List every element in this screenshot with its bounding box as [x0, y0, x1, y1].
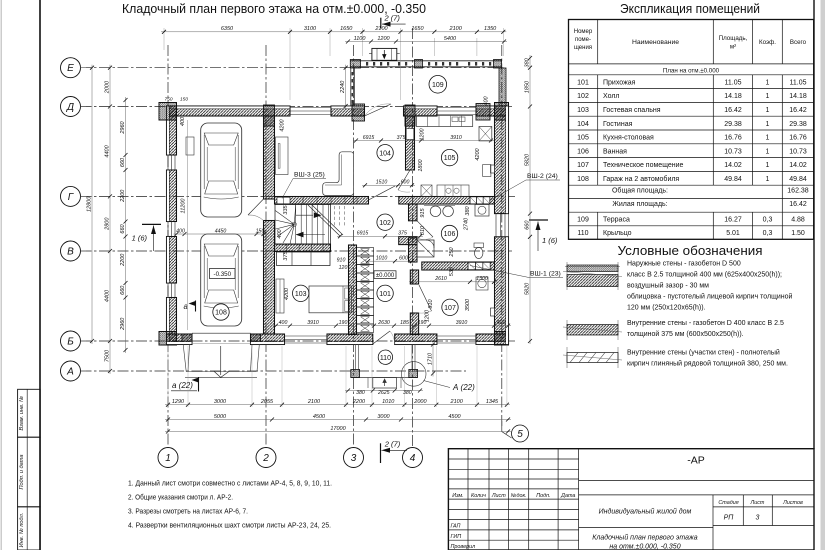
outer wall top at axis D	[167, 106, 291, 116]
stair flight with treads	[275, 205, 331, 245]
room circle 101	[377, 285, 393, 301]
axis G line	[81, 195, 516, 197]
svg-text:14.18: 14.18	[724, 93, 742, 100]
svg-text:103: 103	[295, 291, 307, 298]
svg-text:Номер: Номер	[574, 29, 593, 35]
garage dimension row	[174, 233, 267, 235]
svg-text:1710: 1710	[427, 352, 433, 365]
svg-text:1: 1	[766, 148, 770, 155]
corner pier top left	[159, 103, 177, 121]
svg-text:10.73: 10.73	[789, 148, 807, 155]
svg-text:Изм.: Изм.	[452, 493, 464, 499]
toilet	[474, 243, 484, 248]
kitchen fridge and counter strip	[479, 127, 492, 141]
svg-text:150: 150	[256, 228, 265, 234]
axis 5 line	[501, 45, 503, 428]
svg-text:3100: 3100	[304, 26, 317, 32]
vent outlet tech right wall	[491, 308, 495, 316]
svg-text:План на отм.±0.000: План на отм.±0.000	[663, 68, 720, 75]
svg-text:ВШ-3 (25): ВШ-3 (25)	[294, 172, 325, 179]
svg-text:102: 102	[577, 93, 589, 100]
svg-text:101: 101	[379, 291, 391, 298]
svg-text:0,3: 0,3	[763, 230, 773, 237]
window left wall 3	[167, 283, 169, 298]
axis circle 4	[403, 448, 423, 468]
axis circle Г	[61, 186, 81, 206]
svg-text:2630: 2630	[377, 320, 390, 326]
svg-text:5820: 5820	[524, 153, 530, 166]
svg-text:Кладочный план первого этажа н: Кладочный план первого этажа на отм.±0.0…	[122, 2, 426, 16]
svg-text:1: 1	[766, 79, 770, 86]
kitchen sink	[452, 117, 458, 122]
svg-text:2240: 2240	[340, 80, 346, 94]
svg-text:16.42: 16.42	[724, 107, 742, 114]
room circle 102	[377, 214, 393, 230]
svg-text:Д: Д	[66, 102, 74, 113]
axis circle 1	[158, 448, 178, 468]
svg-text:Е: Е	[67, 63, 74, 74]
svg-text:16.42: 16.42	[789, 107, 807, 114]
vent block VSh-2 cells	[470, 197, 490, 204]
svg-text:Взам. инв. №: Взам. инв. №	[19, 396, 25, 431]
room circle 108	[213, 304, 229, 320]
svg-text:4200: 4200	[284, 287, 290, 300]
stair winder steps	[292, 222, 296, 226]
level mark -0.350	[210, 269, 236, 279]
garage driveway apron	[183, 345, 186, 372]
svg-text:3910: 3910	[456, 320, 468, 326]
wardrobe room 103	[276, 279, 284, 313]
svg-text:Наружные стены - газобетон D 5: Наружные стены - газобетон D 500	[627, 260, 741, 268]
room 102 dimension row	[337, 235, 423, 237]
room circle 109	[429, 76, 447, 94]
svg-text:1200: 1200	[425, 309, 431, 322]
svg-text:2 (7): 2 (7)	[384, 440, 401, 449]
washing machine VSh-2	[475, 205, 489, 217]
svg-text:5.01: 5.01	[726, 230, 740, 237]
svg-text:4.88: 4.88	[791, 216, 805, 223]
svg-text:14.18: 14.18	[789, 93, 807, 100]
svg-text:Ванная: Ванная	[603, 148, 627, 155]
svg-text:6915: 6915	[363, 135, 375, 141]
svg-text:Холл: Холл	[603, 93, 620, 100]
svg-text:102: 102	[379, 220, 391, 227]
dimension chain bottom row 2	[165, 419, 511, 421]
dimension 2610 1300	[409, 281, 497, 283]
svg-text:2100: 2100	[450, 399, 464, 405]
svg-text:Площадь,: Площадь,	[719, 35, 748, 42]
terrace right wall	[499, 68, 506, 106]
svg-text:Наименование: Наименование	[632, 39, 679, 46]
axis circle Е	[61, 58, 81, 78]
svg-text:162.38: 162.38	[787, 188, 809, 195]
svg-text:29.38: 29.38	[789, 121, 807, 128]
svg-text:ГИП: ГИП	[451, 534, 462, 540]
cabinet room 104	[276, 137, 289, 175]
window left wall 2	[167, 222, 169, 237]
dimension chain right detail	[529, 55, 531, 344]
svg-text:Экспликация помещений: Экспликация помещений	[620, 1, 760, 16]
svg-text:2100: 2100	[307, 399, 321, 405]
svg-text:910: 910	[428, 298, 434, 308]
vent shaft VSh-1 cells	[357, 248, 374, 257]
dimension chain top row 2	[345, 41, 507, 43]
svg-text:750: 750	[164, 97, 172, 103]
svg-text:2100: 2100	[449, 26, 463, 32]
stair upper flight dashed	[334, 206, 336, 226]
svg-text:16.76: 16.76	[724, 135, 742, 142]
svg-text:400: 400	[176, 228, 185, 234]
entry door leaf	[373, 331, 390, 344]
wall 104-105 at axis 4 upper	[406, 116, 415, 170]
svg-text:Подп.: Подп.	[536, 493, 550, 499]
svg-text:915: 915	[420, 207, 426, 217]
boiler room 107	[476, 277, 488, 290]
svg-text:РП: РП	[724, 515, 735, 522]
svg-text:Гостевая спальня: Гостевая спальня	[603, 107, 661, 114]
svg-text:2800: 2800	[104, 217, 110, 231]
car 1 in garage	[201, 123, 242, 217]
door 101-107 leaf	[419, 285, 432, 311]
svg-text:1510: 1510	[376, 180, 388, 186]
axis circle Д	[61, 97, 81, 117]
svg-text:а (22): а (22)	[172, 381, 193, 390]
svg-text:7500: 7500	[104, 349, 110, 362]
wall 102-106	[409, 204, 418, 221]
window right wall bathroom	[495, 214, 497, 237]
svg-text:4200: 4200	[280, 118, 286, 131]
window in top wall kitchen	[437, 107, 476, 109]
sheet paper edge	[0, 0, 2, 550]
svg-text:105: 105	[444, 155, 456, 162]
svg-text:910: 910	[337, 258, 346, 264]
svg-text:106: 106	[444, 231, 456, 238]
vent cells VSh-3 in G wall	[277, 197, 290, 204]
svg-text:1345: 1345	[486, 399, 499, 405]
axis D line	[81, 106, 513, 108]
axis circle 2	[256, 448, 276, 468]
interior wall at axis G left part	[275, 197, 369, 205]
svg-text:Жилая площадь:: Жилая площадь:	[612, 201, 667, 208]
svg-text:103: 103	[577, 107, 589, 114]
axis B line	[81, 340, 516, 342]
bedroom dimension row	[273, 325, 353, 327]
svg-text:3500: 3500	[465, 298, 471, 311]
svg-text:на отм.±0.000, -0.350: на отм.±0.000, -0.350	[609, 544, 680, 550]
porch side walls	[355, 345, 357, 370]
closet cells under stair	[277, 252, 331, 266]
svg-text:2200: 2200	[352, 399, 366, 405]
terrace door opening with leaf	[365, 104, 392, 116]
svg-text:110: 110	[380, 355, 391, 362]
svg-text:2. Общие указания смотри л. АР: 2. Общие указания смотри л. АР-2.	[128, 493, 233, 502]
svg-text:поме-: поме-	[575, 37, 591, 43]
svg-text:5: 5	[517, 429, 523, 440]
shower cabin	[417, 240, 434, 257]
bathroom sinks	[424, 205, 455, 207]
svg-text:105: 105	[577, 135, 589, 142]
svg-text:Б: Б	[67, 336, 74, 347]
svg-text:Терраса: Терраса	[603, 216, 630, 223]
svg-text:106: 106	[577, 148, 589, 155]
left stamp box Podp i data	[18, 437, 41, 507]
svg-text:Внутренние стены (участки стен: Внутренние стены (участки стен) - полнот…	[627, 349, 780, 357]
svg-text:375: 375	[397, 135, 406, 141]
terrace left wall	[350, 68, 352, 106]
svg-text:4450: 4450	[215, 228, 227, 234]
room circle 104	[377, 145, 393, 161]
svg-text:4. Развертки вентиляционных ша: 4. Развертки вентиляционных шахт смотри …	[128, 521, 331, 530]
hall dimension 1010 600	[365, 260, 415, 262]
svg-text:16.27: 16.27	[724, 216, 742, 223]
svg-text:№док.: №док.	[511, 493, 527, 499]
svg-text:ГАП: ГАП	[451, 524, 461, 530]
corner pier bottom left	[159, 332, 177, 346]
svg-text:110: 110	[577, 230, 588, 237]
svg-text:облицовка - пустотелый лицевой: облицовка - пустотелый лицевой кирпич то…	[627, 293, 793, 301]
dimension chain bottom row 3	[165, 431, 511, 433]
svg-text:Кухня-столовая: Кухня-столовая	[603, 135, 654, 142]
svg-text:400: 400	[279, 320, 288, 326]
svg-text:600: 600	[401, 180, 410, 186]
svg-text:2625: 2625	[377, 390, 390, 396]
svg-text:109: 109	[577, 216, 589, 223]
svg-text:Гостиная: Гостиная	[603, 121, 633, 128]
frame left border	[39, 0, 41, 550]
svg-text:кирпич глиняный рядовой толщин: кирпич глиняный рядовой толщиной 380, 25…	[627, 360, 788, 368]
dimension chain terrace 2240	[345, 65, 347, 109]
corner pier bottom right	[495, 332, 509, 346]
svg-text:Дата: Дата	[560, 493, 575, 499]
svg-text:150: 150	[180, 97, 188, 103]
svg-text:1: 1	[766, 176, 770, 183]
interior wall at axis G right part	[399, 197, 495, 205]
svg-text:1650: 1650	[340, 26, 353, 32]
corner pier top right	[495, 103, 509, 121]
room circle 107	[442, 299, 458, 315]
svg-text:Коэф.: Коэф.	[759, 39, 776, 46]
svg-text:4200: 4200	[475, 147, 481, 160]
dimension chain left detail	[125, 97, 127, 353]
node circle A-22 with leader	[401, 362, 426, 387]
title block project name cell	[579, 494, 814, 496]
door 104-105 leaf	[398, 170, 410, 190]
car 2 in garage	[201, 234, 242, 326]
svg-text:Условные обозначения: Условные обозначения	[618, 243, 763, 258]
svg-text:ВШ-1 (23): ВШ-1 (23)	[530, 271, 561, 278]
terrace post mid	[415, 60, 423, 69]
svg-text:3. Разрезы смотреть на листах: 3. Разрезы смотреть на листах АР-6, 7.	[128, 507, 248, 516]
svg-text:1200: 1200	[420, 127, 426, 140]
svg-text:2200: 2200	[120, 253, 126, 267]
svg-text:185: 185	[400, 320, 409, 326]
wall stub 102-101 junction	[399, 237, 417, 245]
porch dimension 1710	[432, 342, 434, 377]
svg-text:16.76: 16.76	[789, 135, 807, 142]
svg-text:4500: 4500	[313, 414, 326, 420]
section mark 2-7 bottom	[380, 443, 382, 463]
svg-text:5400: 5400	[444, 36, 457, 42]
svg-text:14.02: 14.02	[724, 162, 742, 169]
junction pier axis4 wall top	[405, 105, 415, 126]
svg-text:400: 400	[497, 320, 506, 326]
svg-text:2000: 2000	[104, 80, 110, 94]
svg-text:Стадия: Стадия	[718, 500, 738, 506]
svg-text:Всего: Всего	[790, 39, 807, 46]
svg-text:Инв. № подл.: Инв. № подл.	[19, 513, 25, 548]
svg-text:0,3: 0,3	[763, 216, 773, 223]
extension lines bottom	[167, 346, 169, 407]
svg-text:380: 380	[356, 390, 365, 396]
title block left grid	[467, 449, 469, 550]
axis circle 3	[344, 448, 364, 468]
garage shelf	[186, 137, 194, 155]
svg-text:-АР: -АР	[687, 455, 705, 467]
svg-text:Крыльцо: Крыльцо	[603, 230, 632, 237]
garage door to hall leaf	[248, 199, 264, 215]
svg-text:ВШ-2 (24): ВШ-2 (24)	[527, 173, 558, 180]
svg-text:1010: 1010	[382, 399, 395, 405]
svg-text:Лист: Лист	[491, 493, 506, 499]
svg-text:В: В	[67, 246, 74, 257]
hall 101 dimension row	[371, 325, 511, 327]
svg-text:108: 108	[577, 176, 589, 183]
svg-text:660: 660	[120, 223, 126, 233]
porch steps	[373, 378, 397, 389]
svg-text:Техническое помещение: Техническое помещение	[603, 162, 684, 169]
junction pier terrace door left	[352, 104, 365, 121]
passage 102-101 door leaf	[369, 186, 396, 200]
porch piers	[351, 370, 360, 378]
svg-text:2 (7): 2 (7)	[384, 14, 401, 23]
stair break line	[308, 205, 340, 236]
svg-text:107: 107	[444, 305, 456, 312]
svg-text:Колич: Колич	[471, 493, 486, 499]
junction pier kitchen NW	[476, 104, 490, 121]
svg-text:3910: 3910	[450, 135, 462, 141]
svg-text:104: 104	[577, 121, 589, 128]
axis circle Б	[61, 331, 81, 351]
svg-text:а: а	[184, 302, 189, 311]
svg-text:11.05: 11.05	[790, 79, 807, 86]
chimney on terrace	[372, 48, 397, 60]
svg-text:м²: м²	[730, 44, 736, 51]
svg-text:класс В 2.5 толщиной 400 мм (6: класс В 2.5 толщиной 400 мм (625х400х250…	[627, 271, 782, 279]
axis 3 line	[353, 45, 355, 447]
svg-text:11200: 11200	[181, 198, 187, 214]
wall at axis 4 lower	[410, 270, 418, 284]
svg-text:11.05: 11.05	[725, 79, 742, 86]
axis circle 5 with leader	[502, 421, 512, 438]
junction pier garage east wall top	[264, 105, 275, 126]
svg-text:Гараж на 2 автомобиля: Гараж на 2 автомобиля	[603, 175, 679, 183]
svg-text:1800: 1800	[418, 158, 424, 171]
svg-text:3910: 3910	[307, 320, 319, 326]
svg-text:2960: 2960	[120, 120, 126, 134]
svg-text:3000: 3000	[377, 414, 390, 420]
svg-text:1: 1	[766, 93, 770, 100]
right gray screen margin	[821, 0, 825, 550]
svg-text:120 мм (250х120х65(h)).: 120 мм (250х120х65(h)).	[627, 305, 706, 312]
axis circle А	[61, 361, 81, 381]
window left wall 1	[167, 155, 169, 170]
room circle 103	[293, 285, 309, 301]
svg-text:1.50: 1.50	[791, 230, 805, 237]
room circle 105	[441, 149, 457, 165]
svg-text:2960: 2960	[120, 317, 126, 331]
axis circle В	[61, 241, 81, 261]
svg-text:17000: 17000	[330, 426, 346, 432]
svg-text:29.38: 29.38	[724, 121, 742, 128]
kitchen cabinet with X	[421, 185, 432, 197]
svg-text:А (22): А (22)	[452, 383, 475, 392]
svg-text:1300: 1300	[476, 276, 488, 282]
terrace post left	[350, 60, 360, 69]
svg-text:108: 108	[215, 310, 227, 317]
svg-text:2100: 2100	[374, 26, 388, 32]
svg-text:12800: 12800	[86, 196, 92, 212]
kitchen lower cabinets	[437, 185, 469, 197]
svg-text:660: 660	[524, 220, 530, 230]
svg-text:6915: 6915	[357, 231, 369, 237]
svg-text:1200: 1200	[377, 36, 390, 42]
svg-text:101: 101	[577, 79, 589, 86]
svg-text:250: 250	[449, 246, 455, 257]
shaft wall at axis 3	[349, 245, 357, 335]
svg-text:1: 1	[766, 107, 770, 114]
room circle 106	[441, 225, 457, 241]
level mark 0.000	[374, 271, 396, 279]
kitchen counter row	[416, 116, 472, 127]
svg-text:120: 120	[339, 265, 348, 271]
wall 106-107 horizontal	[422, 262, 495, 270]
window in top wall left	[290, 107, 331, 109]
svg-text:2000: 2000	[413, 399, 427, 405]
svg-text:1: 1	[766, 121, 770, 128]
svg-text:660: 660	[120, 285, 126, 295]
svg-text:400: 400	[277, 228, 283, 238]
garage door lintel lines	[192, 332, 251, 334]
room schedule table grid	[569, 20, 814, 240]
section mark 2-7 top	[380, 18, 382, 29]
svg-text:1 (6): 1 (6)	[132, 234, 148, 243]
vent outlet kitchen right wall	[491, 165, 495, 173]
svg-text:Проверил: Проверил	[451, 544, 476, 550]
axis V line	[81, 250, 513, 252]
outer wall right at axis 5	[495, 106, 509, 214]
svg-text:2055: 2055	[260, 399, 274, 405]
svg-text:1: 1	[766, 135, 770, 142]
svg-text:14.02: 14.02	[789, 162, 807, 169]
stair walk line with arrows	[296, 234, 325, 236]
svg-text:-0.350: -0.350	[214, 271, 232, 278]
svg-text:375: 375	[283, 250, 289, 260]
svg-text:толщиной 375 мм (600х500х250(h: толщиной 375 мм (600х500х250(h)).	[627, 330, 744, 338]
svg-text:380: 380	[524, 57, 530, 67]
title block stage grid	[712, 495, 714, 550]
svg-text:Подп. и дата: Подп. и дата	[19, 454, 25, 489]
svg-text:5820: 5820	[524, 282, 530, 295]
outer wall left at axis 1	[167, 106, 177, 155]
axis 2 line	[265, 45, 267, 447]
bed room 103	[309, 286, 351, 313]
svg-text:380: 380	[403, 390, 412, 396]
svg-text:375: 375	[398, 231, 407, 237]
svg-text:Листов: Листов	[782, 500, 803, 506]
svg-text:Общая площадь:: Общая площадь:	[612, 187, 668, 195]
dimension chain left axes	[109, 65, 111, 374]
svg-text:Внутренние стены - газобетон D: Внутренние стены - газобетон D 400 класс…	[627, 319, 784, 327]
